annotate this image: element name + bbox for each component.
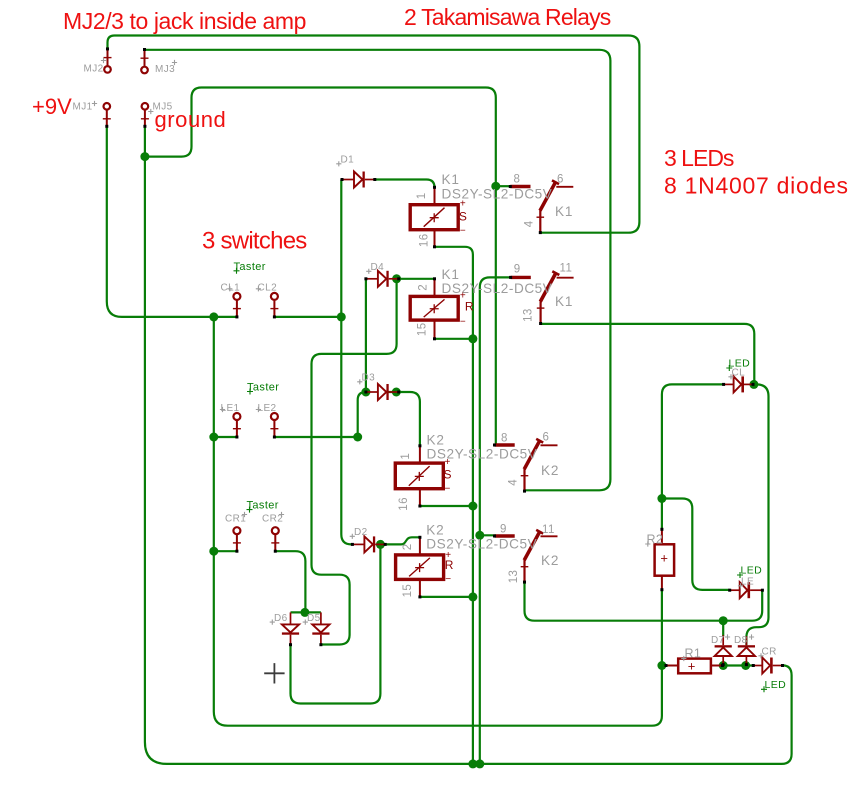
label K2 coil-S name xyxy=(427,433,445,448)
svg-text:11: 11 xyxy=(560,263,573,275)
annotation 3 switches xyxy=(202,228,307,255)
svg-text:DS2Y-SL2-DC5V: DS2Y-SL2-DC5V xyxy=(442,187,553,202)
label R2 xyxy=(645,533,663,547)
label D5 xyxy=(303,613,321,625)
svg-text:K1: K1 xyxy=(442,267,460,282)
wire net MJ3 to K2 contact-S pin 4 xyxy=(145,50,611,491)
svg-text:D3: D3 xyxy=(362,373,376,384)
label pin9 K1R xyxy=(514,264,521,276)
diode D3 xyxy=(364,384,400,400)
wire CR2 down to D5/D6 anodes xyxy=(275,551,321,612)
pin 2 of K2 coil-R xyxy=(418,536,421,555)
svg-text:15: 15 xyxy=(402,584,414,598)
label LED CR value xyxy=(761,679,786,692)
svg-text:8 1N4007 diodes: 8 1N4007 diodes xyxy=(664,173,849,199)
wire K2 contact-R pin 13 right to LED-LE cathode bus xyxy=(525,582,763,621)
label Taster CR xyxy=(247,500,279,513)
svg-text:K2: K2 xyxy=(541,553,559,568)
wire D4 anode down to D3 anode xyxy=(365,279,367,392)
svg-text:D2: D2 xyxy=(354,527,368,538)
wire D1 cathode to K1 coil-S pin 1 xyxy=(375,180,435,188)
annotation +9V xyxy=(32,94,72,119)
wire bus tap down to D7 xyxy=(722,621,724,637)
svg-text:K2: K2 xyxy=(426,523,444,538)
label Taster CL xyxy=(234,261,266,274)
label K2R R xyxy=(445,558,454,572)
svg-text:D1: D1 xyxy=(341,155,355,166)
junction K1 coil-R pin 15 on rail xyxy=(468,334,477,343)
label K2R minus xyxy=(445,574,451,585)
svg-text:2 Takamisawa Relays: 2 Takamisawa Relays xyxy=(404,4,611,30)
label K1S plus xyxy=(460,198,466,209)
label pin8 K1S xyxy=(514,174,521,186)
svg-text:9: 9 xyxy=(500,523,507,535)
junction D8 bottom at R1 row xyxy=(741,661,750,670)
svg-text:ground: ground xyxy=(155,107,227,132)
wire ground bus: MJ5 down, bottom rail, up to CR LED cathode xyxy=(145,126,792,764)
label CR name xyxy=(758,647,776,659)
junction D3 cathode xyxy=(392,388,401,397)
LED CL xyxy=(722,376,754,392)
label K2 coil-R name xyxy=(426,523,444,538)
svg-text:S: S xyxy=(444,468,452,482)
switch CR1 xyxy=(233,527,241,553)
wire K1 coil-R pin 15 to rail xyxy=(435,338,473,340)
wire D7 junction to D8 junction to CR anode xyxy=(723,664,753,666)
wire LE1 stub xyxy=(214,436,236,438)
label pin2 K2R xyxy=(402,543,414,550)
svg-text:CL2: CL2 xyxy=(258,283,278,294)
label pin16 K1S xyxy=(418,234,430,248)
label pin13 K1R xyxy=(523,308,535,322)
annotation ground xyxy=(155,107,227,132)
wire LE2 to D3/D4 junction xyxy=(274,392,365,437)
svg-text:CR2: CR2 xyxy=(262,514,283,525)
label D2 xyxy=(350,527,368,539)
svg-text:R: R xyxy=(465,299,474,313)
junction K2 coil-S pin 16 on rail xyxy=(468,502,477,511)
junction D7 cathode-bottom at R1 row xyxy=(719,661,728,670)
label K1S minus xyxy=(460,225,466,236)
label pin16 K2S xyxy=(398,497,410,511)
wire net MJ2 to K1 contact-S pin 4 xyxy=(108,36,640,233)
label D1 xyxy=(336,155,354,167)
connector MJ5 xyxy=(141,103,149,128)
junction rail x480 at bottom bus xyxy=(475,759,484,768)
connector MJ3 xyxy=(141,48,149,73)
label K1 contact-R name xyxy=(555,294,573,309)
label pin13 K2R xyxy=(508,570,520,584)
label LED LE value xyxy=(737,565,762,579)
svg-text:11: 11 xyxy=(542,524,555,536)
junction R1 left / R2 bottom xyxy=(657,661,666,670)
svg-text:DS2Y-SL2-DC5V: DS2Y-SL2-DC5V xyxy=(426,536,537,551)
switch CR2 xyxy=(271,527,279,553)
label D8 xyxy=(734,634,754,646)
svg-text:D4: D4 xyxy=(371,262,385,273)
pin 1 of K1 coil-S xyxy=(433,186,436,205)
wire K2 coil-R pin 15 to rail xyxy=(420,596,473,598)
switch LE2 xyxy=(270,413,278,439)
resistor R2 xyxy=(655,528,675,591)
label K1 coil-R name xyxy=(442,267,460,282)
label LE2 xyxy=(256,403,277,414)
label pin11 K2R xyxy=(542,524,555,536)
junction D2 cathode xyxy=(376,540,385,549)
svg-text:K1: K1 xyxy=(555,294,573,309)
svg-text:DS2Y-SL2-DC5V: DS2Y-SL2-DC5V xyxy=(442,281,553,296)
label D3 xyxy=(357,373,375,385)
pin 2 of K1 coil-R xyxy=(433,277,436,296)
junction R2/LE feed node xyxy=(657,494,666,503)
svg-text:MJ3: MJ3 xyxy=(155,64,175,75)
wire CL LED anode left and down to R2/LE node xyxy=(662,384,724,529)
svg-text:S: S xyxy=(459,209,467,223)
junction D4 cathode xyxy=(392,274,401,283)
svg-text:−: − xyxy=(445,574,451,585)
junction D3/D4 anodes xyxy=(361,388,370,397)
label R1 xyxy=(681,647,701,662)
svg-text:16: 16 xyxy=(418,234,430,248)
wire +9V column: switch commons down to bottom and right up to R1/R2 node xyxy=(214,317,662,726)
wire D4 cathode to K1 coil-R pin 2 xyxy=(397,278,435,280)
connector MJ2 xyxy=(104,47,112,72)
svg-text:K2: K2 xyxy=(541,463,559,478)
wire CL2 to D1/D2 anodes xyxy=(274,180,352,545)
label D7 xyxy=(711,634,730,646)
LED CR xyxy=(752,658,784,674)
wire R1 left link xyxy=(662,664,666,666)
label K1R minus xyxy=(460,316,466,327)
svg-text:DS2Y-SL2-DC5V: DS2Y-SL2-DC5V xyxy=(427,446,538,461)
label LE1 xyxy=(220,403,240,414)
svg-text:LE2: LE2 xyxy=(258,403,277,414)
annotation 3 LEDs xyxy=(664,145,734,171)
relay K2 coil S xyxy=(395,463,443,489)
wire rail x480: K1 contact-R pin 9 down to bottom rail xyxy=(480,277,511,764)
label pin6 K2S xyxy=(543,432,550,444)
label K1S S xyxy=(459,209,467,223)
diode D6 xyxy=(282,612,299,646)
pin 16 of K1 coil-S xyxy=(433,230,436,249)
label D4 xyxy=(366,262,384,274)
wire D4 cathode S-path down to D5 cathode xyxy=(312,279,397,645)
svg-text:2: 2 xyxy=(402,543,414,550)
junction D5/D6 anode bar xyxy=(300,608,309,617)
svg-text:LED: LED xyxy=(741,565,763,577)
pin 15 of K1 coil-R xyxy=(433,320,436,340)
svg-text:D5: D5 xyxy=(307,613,321,624)
label pin4 K2S xyxy=(508,479,520,486)
diode D1 xyxy=(341,172,377,188)
label CL name xyxy=(728,368,745,380)
label MJ5 xyxy=(148,101,172,114)
svg-text:13: 13 xyxy=(508,570,520,584)
svg-text:MJ2: MJ2 xyxy=(84,64,104,75)
svg-text:4: 4 xyxy=(523,220,535,227)
sheet origin cross xyxy=(264,663,284,683)
label D6 xyxy=(270,613,288,625)
svg-text:K1: K1 xyxy=(442,172,460,187)
svg-text:CR1: CR1 xyxy=(225,514,246,525)
pin 1 of K2 coil-S xyxy=(418,444,421,463)
label K1 coil-S value xyxy=(442,187,553,202)
svg-text:+: + xyxy=(688,659,696,674)
wire D3 cathode to K2 coil-S pin 1 xyxy=(388,392,420,446)
label MJ3 xyxy=(155,60,177,75)
svg-text:+: + xyxy=(445,457,451,468)
connector MJ1 xyxy=(103,103,111,128)
label pin8 K2S xyxy=(501,433,508,445)
wire R1 right to D7 junction xyxy=(721,664,724,666)
label pin15 K1R xyxy=(416,323,428,337)
label pin9 K2R xyxy=(500,523,507,535)
svg-text:D7: D7 xyxy=(711,635,725,646)
junction rail x480 at K2 pin 9 xyxy=(475,531,484,540)
relay contact K2-R xyxy=(493,530,558,584)
svg-text:D6: D6 xyxy=(274,613,288,624)
junction ground at MJ5 branch xyxy=(140,152,149,161)
svg-text:6: 6 xyxy=(557,173,564,185)
annotation 2 Takamisawa Relays xyxy=(404,4,611,30)
diode D7 xyxy=(715,635,732,666)
relay contact K2-S xyxy=(493,439,558,493)
label Taster LE xyxy=(247,382,279,395)
label K2S S xyxy=(444,468,452,482)
svg-text:MJ2/3 to jack inside amp: MJ2/3 to jack inside amp xyxy=(63,8,306,34)
label CR1 xyxy=(225,512,247,525)
switch LE1 xyxy=(233,413,241,439)
wire R2/CL node right and down to LE LED anode xyxy=(662,499,730,590)
resistor R1 xyxy=(665,659,724,674)
svg-text:+: + xyxy=(460,198,466,209)
label CL2 xyxy=(256,283,277,294)
switch CL2 xyxy=(270,293,278,319)
junction LE row at column xyxy=(209,433,218,442)
junction CL LED cathode xyxy=(749,380,758,389)
svg-text:R: R xyxy=(445,558,454,572)
label CL1 xyxy=(221,283,241,294)
svg-text:D8: D8 xyxy=(734,635,748,646)
relay contact K1-R xyxy=(509,271,573,325)
wire stub junction to K1 contact-S pin 8 xyxy=(496,185,511,187)
svg-text:MJ1: MJ1 xyxy=(73,101,93,112)
wire K1 contact-R pin 13 right to CL LED cathode xyxy=(541,324,755,385)
wire D2 cathode down around to D6 cathode xyxy=(291,544,381,703)
wire +9V: MJ1 down and right to CL1 xyxy=(107,126,236,317)
label pin2 K1R xyxy=(418,284,430,291)
relay K2 coil R xyxy=(396,555,444,580)
junction CR row at column xyxy=(209,547,218,556)
svg-text:CR: CR xyxy=(762,647,777,658)
svg-text:+9V: +9V xyxy=(32,94,72,119)
svg-text:3 switches: 3 switches xyxy=(202,228,307,255)
svg-text:8: 8 xyxy=(501,433,508,445)
svg-text:K2: K2 xyxy=(427,433,445,448)
annotation MJ2/3 to jack inside amp xyxy=(63,8,306,34)
label LE name xyxy=(738,577,754,589)
svg-text:LE1: LE1 xyxy=(221,403,240,414)
svg-text:LED: LED xyxy=(765,679,787,691)
label MJ2 xyxy=(84,58,107,75)
svg-text:−: − xyxy=(460,225,466,236)
label K1R plus xyxy=(460,290,466,301)
svg-text:2: 2 xyxy=(418,284,430,291)
junction K2 coil-R pin 15 on rail xyxy=(468,592,477,601)
junction LE2 wire corner xyxy=(353,433,362,442)
junction CL2/D1 anode xyxy=(337,312,346,321)
svg-text:K1: K1 xyxy=(555,204,573,219)
label K1 coil-R value xyxy=(442,281,553,296)
junction +9V row at CL1 column xyxy=(209,312,218,321)
svg-text:1: 1 xyxy=(400,453,412,460)
junction LED bus at D7 tap xyxy=(719,616,728,625)
label pin11 K1R xyxy=(560,263,573,275)
label K2 coil-R value xyxy=(426,536,537,551)
label pin4 K1S xyxy=(523,220,535,227)
label K2S plus xyxy=(445,457,451,468)
svg-text:9: 9 xyxy=(514,264,521,276)
label LED CL value xyxy=(726,358,750,372)
label pin1 K2S xyxy=(400,453,412,460)
diode D2 xyxy=(351,536,387,552)
svg-text:−: − xyxy=(460,316,466,327)
wire R2 bottom through to R1 left node xyxy=(661,590,663,666)
label CR2 xyxy=(262,512,284,525)
label pin15 K2R xyxy=(402,584,414,598)
svg-text:−: − xyxy=(445,484,451,495)
label K1R R xyxy=(465,299,474,313)
svg-text:8: 8 xyxy=(514,174,521,186)
label pin6 K1S xyxy=(557,173,564,185)
diode D4 xyxy=(364,271,400,287)
pin 15 of K2 coil-R xyxy=(418,579,421,598)
relay K1 coil R xyxy=(410,296,458,320)
svg-text:R1: R1 xyxy=(685,647,702,661)
wire ground branch: MJ5 junction over to vertical, down to K2 pin 8 xyxy=(145,88,496,445)
diode D8 xyxy=(738,636,755,666)
label K1 contact-S name xyxy=(555,204,573,219)
wire K1 coil-S pin 16 to vertical rail x473 xyxy=(435,247,473,764)
label pin1 K1S xyxy=(416,193,428,200)
label K2 contact-S name xyxy=(541,463,559,478)
junction K1 contact-S pin 8 tap xyxy=(491,182,500,191)
label MJ1 xyxy=(73,101,98,112)
svg-text:13: 13 xyxy=(523,308,535,322)
svg-text:6: 6 xyxy=(543,432,550,444)
svg-text:4: 4 xyxy=(508,479,520,486)
wire CL LED cathode down to D8 xyxy=(746,384,768,645)
wire K2 coil-S pin 16 to rail xyxy=(420,505,473,507)
relay contact K1-S xyxy=(509,180,574,234)
label K2R plus xyxy=(445,550,451,561)
wire CR1 stub xyxy=(214,550,236,552)
svg-text:+: + xyxy=(660,551,668,566)
diode D5 xyxy=(312,612,329,646)
switch CL1 xyxy=(233,293,241,319)
annotation 8 1N4007 diodes xyxy=(664,173,849,199)
wire D2 cathode to K2 coil-R pin 2 xyxy=(380,537,420,544)
junction rail x473 at bottom bus xyxy=(468,759,477,768)
wire rail x480 tap to K2 contact-R pin 9 xyxy=(480,534,496,536)
relay K1 coil S xyxy=(410,205,458,230)
svg-text:3 LEDs: 3 LEDs xyxy=(664,145,734,171)
svg-text:15: 15 xyxy=(416,323,428,337)
label K2S minus xyxy=(445,484,451,495)
label K2 coil-S value xyxy=(427,446,538,461)
svg-text:1: 1 xyxy=(416,193,428,200)
LED LE xyxy=(728,582,764,598)
label K1 coil-S name xyxy=(442,172,460,187)
label K2 contact-R name xyxy=(541,553,559,568)
svg-text:16: 16 xyxy=(398,497,410,511)
pin 16 of K2 coil-S xyxy=(418,489,421,508)
